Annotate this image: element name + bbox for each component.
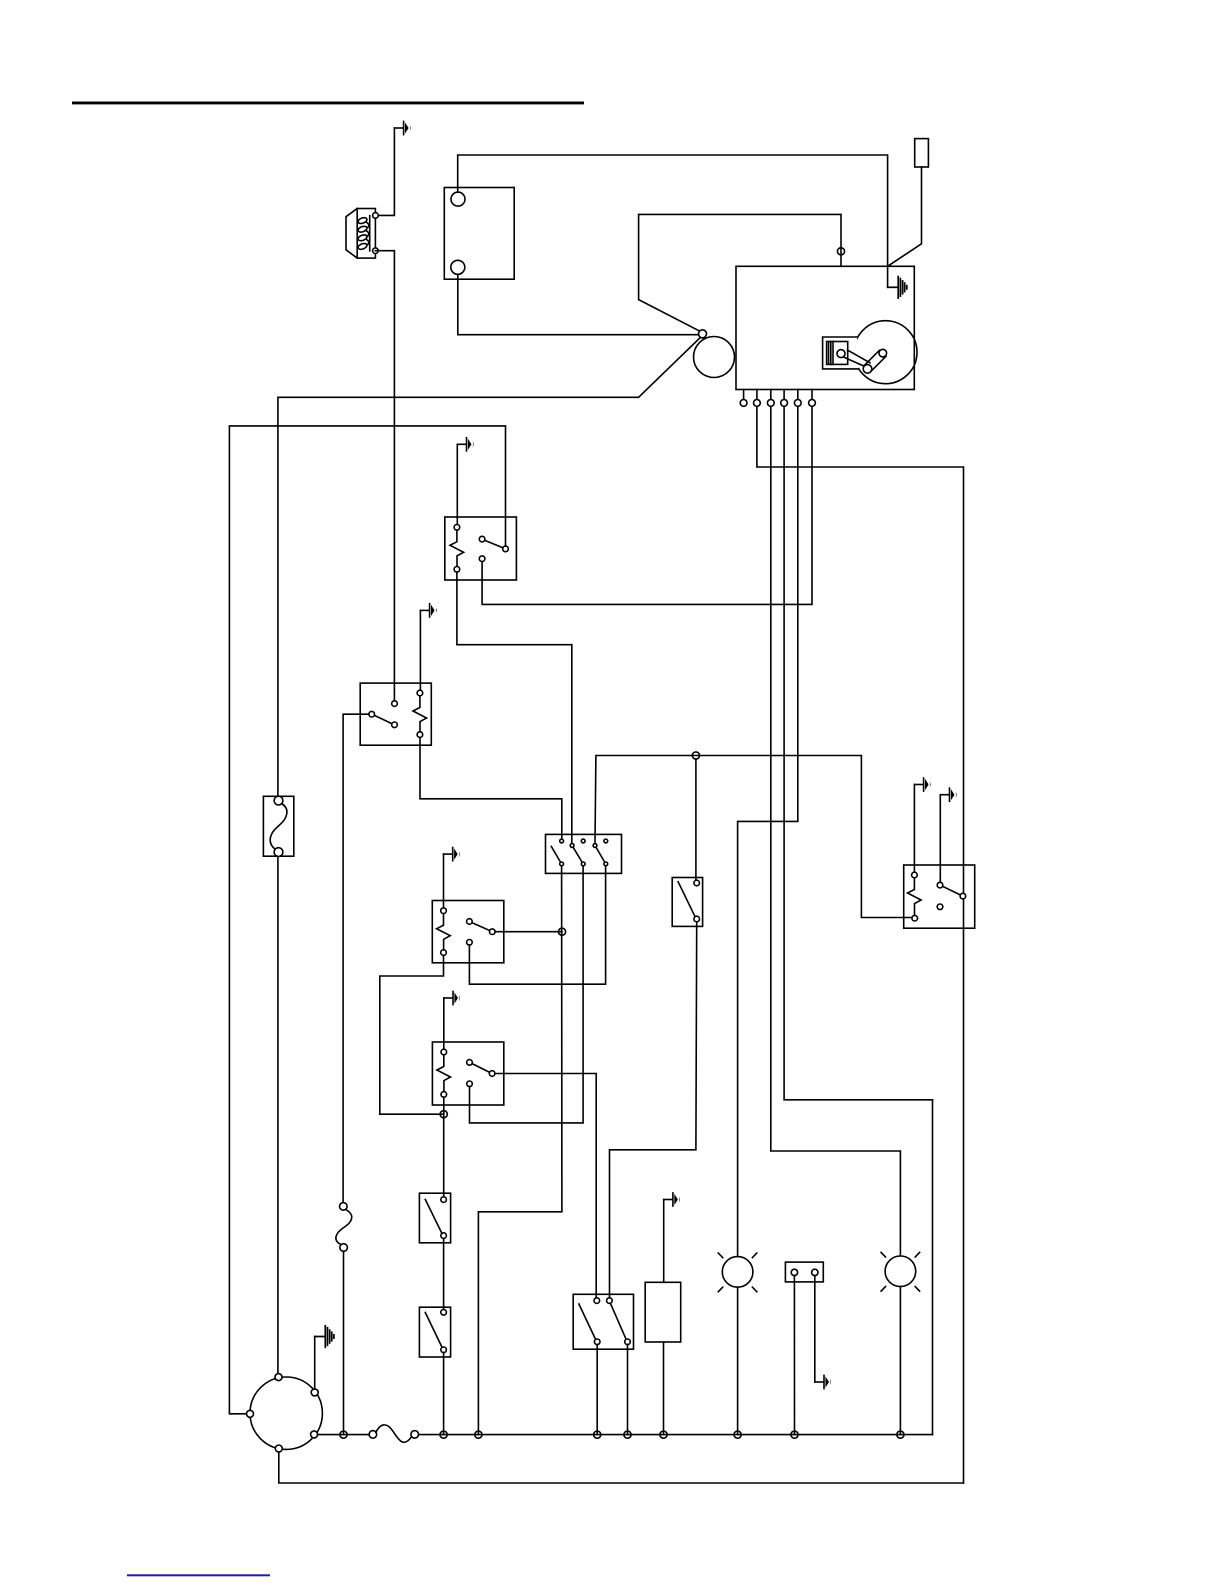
3-gang switch SW3 <box>546 834 622 873</box>
wire T6 chain to relay K1 <box>482 406 812 604</box>
wire T2 chain right side <box>757 406 964 1483</box>
crank arm <box>864 350 879 365</box>
switch S1 <box>672 878 702 927</box>
wire magneto to ground <box>314 1337 316 1389</box>
wire K1 resistor bottom to gang switch pole2 <box>457 572 572 845</box>
fuse F3 squiggle on left rail <box>336 1203 352 1252</box>
wire ground to K5 resistor <box>913 785 915 873</box>
relay K2 <box>360 683 431 745</box>
wire K4 switch right to DP switch <box>495 1074 596 1298</box>
bus nodes <box>340 1431 347 1438</box>
wire T5 chain to lamp L1 <box>738 406 798 1256</box>
lamp L1 <box>718 1253 757 1292</box>
wire starter node to left rail and fuse F2 <box>278 338 700 797</box>
blue link underline <box>127 1574 270 1576</box>
piston <box>827 342 848 365</box>
DP switch SW2 <box>573 1294 633 1349</box>
connecting rod <box>844 357 864 366</box>
wire DP right to bus <box>627 1345 629 1435</box>
junction node pole3 chain <box>692 752 699 759</box>
wire block to bus <box>663 1342 665 1435</box>
wire SA to SB <box>443 1238 445 1309</box>
wire K3 switch bottom to gang pole3 <box>469 867 605 985</box>
fuse F2 <box>263 796 293 856</box>
wire coil to relay K2 <box>375 251 394 701</box>
wire gang pole1 bottom chain to bus <box>478 866 562 1435</box>
ground G8 (magneto) <box>315 1326 334 1348</box>
wire T4 chain to bus end <box>784 406 932 1434</box>
node on engine top wire <box>837 248 844 255</box>
fuse F1 <box>915 139 929 167</box>
wire K1 feed (left rail top) <box>229 426 505 1414</box>
wire ground to K1 resistor <box>456 444 458 524</box>
cylinder <box>823 337 859 369</box>
engine assembly <box>736 266 917 389</box>
ground G4 (relay K2) <box>420 604 436 617</box>
ignition coil T1 <box>346 209 378 259</box>
ground G6 (relay K4) <box>444 991 460 1004</box>
magneto/alternator AC1 <box>247 1374 323 1452</box>
wire fuse to engine corner <box>888 167 922 266</box>
ground G2 engine internal <box>888 277 907 299</box>
relay K4 <box>432 1042 503 1105</box>
wire ground to K4 resistor <box>443 998 445 1049</box>
starter motor M <box>694 337 735 378</box>
wire K4 resistor bottom to junction <box>443 1097 445 1114</box>
ground G7b (relay K5 switch) <box>940 788 956 801</box>
bus wire <box>318 1434 370 1436</box>
wire ground to K5 switch <box>939 795 941 883</box>
wire TB right to ground <box>814 1276 816 1382</box>
crank center <box>879 349 887 357</box>
title rule <box>72 102 584 105</box>
relay K5 <box>904 865 975 928</box>
wire squiggle to bus <box>343 1251 345 1434</box>
switch SB <box>419 1307 450 1357</box>
lamp L2 <box>881 1252 920 1291</box>
wire K3 resistor bottom bypass <box>380 955 444 1114</box>
wire magneto bottom to lower rail <box>279 1452 964 1483</box>
wire K3 switch right to gang pole1 rail junction <box>495 931 562 933</box>
wrist pin <box>837 350 845 358</box>
wire starter rail through fuse F2 to magneto top <box>277 856 279 1373</box>
ground G1 <box>394 121 410 134</box>
crank pin <box>863 365 872 374</box>
starter node <box>699 330 707 338</box>
wire K4 switch bottom to gang pole2 <box>470 867 584 1123</box>
wire TB left to bus <box>793 1276 795 1435</box>
wire T3 chain to lamp L2 <box>771 406 901 1256</box>
wire lamp L2 to bus <box>899 1287 901 1435</box>
wire K2 switch to left rail <box>343 714 369 1202</box>
wire K2 resistor bottom to gang pole1 <box>420 737 562 838</box>
flywheel <box>854 321 917 384</box>
switch SA <box>419 1193 450 1243</box>
wire DP left to bus <box>596 1345 598 1435</box>
starter solenoid B1 <box>444 188 514 280</box>
ground G5 (relay K3) <box>444 848 460 861</box>
wire ground to K2 resistor <box>419 610 421 690</box>
relay K3 <box>432 901 504 963</box>
ground G3 (relay K1) <box>457 438 473 451</box>
ground G9 (terminal block) <box>815 1375 831 1388</box>
wire ground to block <box>663 1200 665 1283</box>
relay K1 <box>445 517 517 580</box>
wire S1 to DP switch <box>610 922 697 1298</box>
wire gang pole3 top chain to relay K5 <box>595 756 912 918</box>
wire B1 bottom to starter node <box>458 274 699 334</box>
wire junction down to switch S1 <box>695 759 697 880</box>
resistor block R1 <box>645 1282 681 1342</box>
wire magneto loop to starter node <box>639 214 841 331</box>
junction node gang pole1 / K3 <box>558 928 565 935</box>
wire lamp L1 to bus <box>737 1287 739 1434</box>
engine terminals T1-T6 <box>740 390 815 407</box>
wire junction to switch SA <box>443 1114 445 1197</box>
wire ground to K3 resistor <box>443 854 445 908</box>
wire <box>375 128 394 215</box>
bus squiggle <box>369 1425 418 1442</box>
junction node <box>440 1111 447 1118</box>
ground G7a (relay K5 resistor) <box>914 778 930 791</box>
wire SB to bus <box>443 1353 445 1435</box>
wire B1 top to engine ground <box>458 155 888 287</box>
ground G10 (resistor block) <box>664 1193 680 1206</box>
terminal block TB1 <box>785 1262 823 1282</box>
